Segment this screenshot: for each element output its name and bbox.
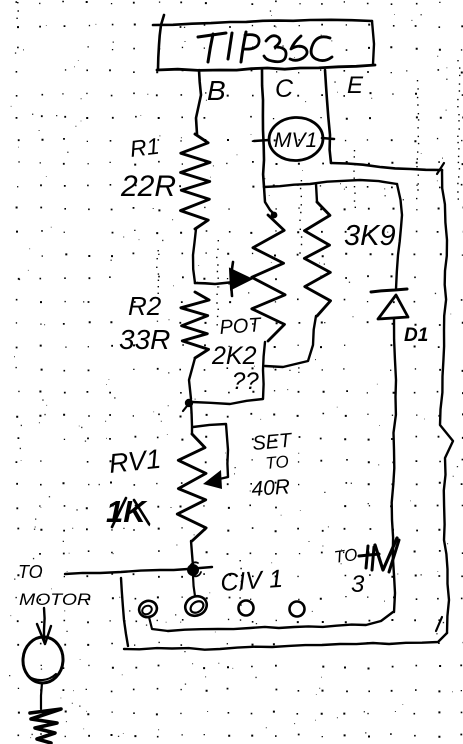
label R1 [128, 133, 160, 162]
svg-text:3: 3 [351, 571, 365, 598]
label RV1 [107, 444, 162, 479]
node B junction [187, 562, 201, 576]
label pin E [347, 72, 364, 99]
svg-text:E: E [347, 72, 364, 99]
label 22R [120, 170, 176, 203]
svg-text:R2: R2 [128, 291, 162, 321]
svg-text:C: C [275, 75, 294, 103]
motor arrow [37, 608, 51, 644]
resistor R2 [181, 292, 209, 358]
label D1 [404, 325, 428, 346]
label 3 [351, 571, 365, 598]
variable resistor RV1 [177, 434, 206, 541]
label POT [219, 314, 263, 339]
wire pin C lead [262, 70, 264, 187]
label TO MOTOR [18, 562, 91, 609]
svg-text:3K9: 3K9 [344, 220, 396, 252]
wire D1 cathode lead [396, 184, 402, 289]
svg-text:TO: TO [333, 545, 359, 567]
label 1K [106, 494, 149, 529]
wire D1 anode down right rail [392, 319, 396, 612]
wire board inner bottom [168, 612, 393, 631]
motor M1 [21, 636, 64, 685]
wire RV1 wiper link [193, 424, 228, 489]
wire right outer rail [440, 170, 453, 633]
label R2 [128, 291, 162, 321]
label 33R [119, 324, 170, 355]
wire 3K9 top lead [316, 184, 317, 202]
wire pin B lead [196, 70, 201, 134]
svg-text:33R: 33R [119, 324, 170, 355]
svg-text:40R: 40R [251, 475, 291, 501]
node A junction [183, 399, 193, 411]
terminal T1 [137, 598, 159, 619]
wire RV1 to node B [191, 541, 193, 566]
wire motor to ground [41, 683, 42, 709]
wire wiper arrow into POT [195, 262, 251, 296]
wire node A to RV1 [191, 403, 192, 434]
terminal T3 [239, 601, 254, 616]
svg-text:TO: TO [18, 562, 43, 582]
label TIP 35C [198, 32, 332, 62]
label pin B [207, 75, 226, 106]
terminal T4 [290, 602, 305, 617]
label ?? [232, 368, 259, 395]
wire C to POT top [264, 187, 275, 215]
svg-text:POT: POT [219, 314, 263, 339]
svg-text:CIV 1: CIV 1 [219, 565, 283, 597]
wire node A to POT bottom [192, 342, 265, 404]
svg-text:B: B [207, 75, 226, 106]
wire T1 to board bottom [149, 617, 168, 631]
svg-text:R1: R1 [128, 133, 160, 162]
varistor MV1 [254, 116, 334, 162]
svg-text:MOTOR: MOTOR [19, 590, 91, 609]
label 2K2 [211, 342, 257, 370]
svg-text:??: ?? [232, 368, 259, 395]
svg-text:D1: D1 [404, 325, 428, 346]
svg-text:MV1: MV1 [274, 129, 317, 152]
diode D1 [371, 289, 408, 319]
label 3K9 [344, 220, 396, 252]
resistor 3K9 [304, 202, 330, 316]
potentiometer POT 2K2 [252, 212, 285, 341]
svg-text:2K2: 2K2 [211, 342, 257, 370]
wire bottom outer rail [124, 617, 447, 650]
wire C to 3K9 and D1 top rail [264, 180, 397, 187]
wire to motor [65, 567, 212, 574]
wire pin E lead [325, 70, 331, 163]
transistor TIP35C outline box [153, 15, 375, 70]
wire enclosure left edge [121, 578, 128, 646]
resistor R1 [181, 134, 211, 229]
label pin C [275, 75, 294, 103]
label TO +V [333, 538, 399, 572]
wire E to right rail [331, 163, 444, 174]
label CIV 1 [219, 565, 283, 597]
wire R2 to node A [189, 358, 195, 399]
svg-text:TO: TO [265, 452, 290, 473]
wire R1 to R2 [193, 229, 196, 283]
wire node B to terminal T2 [193, 576, 195, 596]
label SET TO 40R [251, 430, 294, 501]
svg-text:RV1: RV1 [107, 444, 162, 479]
wire 3K9 bottom to POT bottom [265, 316, 316, 367]
svg-text:22R: 22R [120, 170, 176, 203]
terminal T2 [182, 593, 210, 620]
ground squiggle [30, 709, 61, 743]
